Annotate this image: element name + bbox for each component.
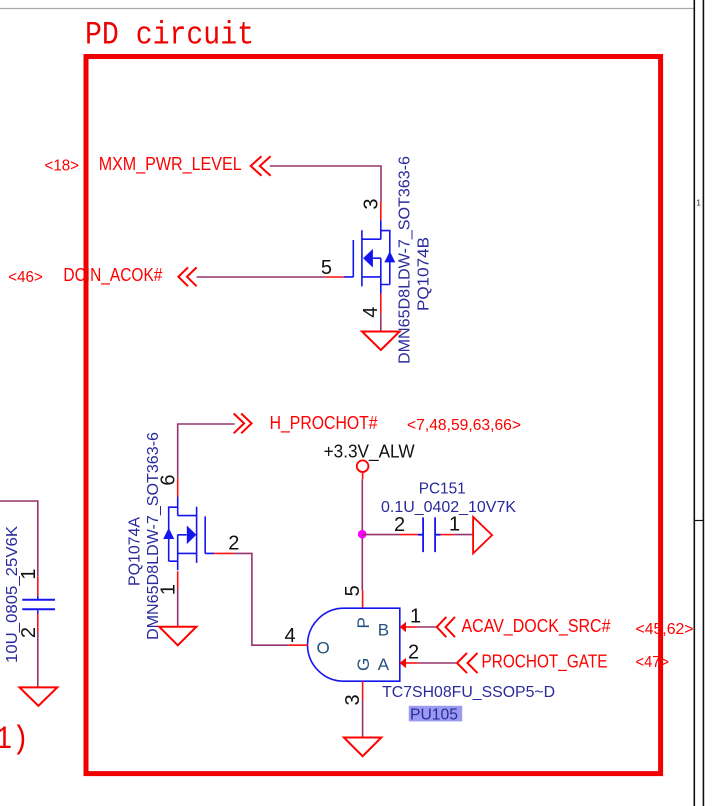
off-page connector chevron PROCHOT_GATE: [457, 653, 478, 673]
capacitor PC151 plates: [418, 517, 441, 552]
capacitor 10U pin 1 (red pin): [37, 577, 39, 596]
ground below PQ1074B: [362, 332, 400, 351]
svg-text:PROCHOT_GATE: PROCHOT_GATE: [482, 651, 608, 672]
svg-text:2: 2: [228, 533, 239, 555]
sheet top rule: [0, 8, 694, 10]
transistor PQ1074A pin 2 (red pin): [214, 552, 234, 554]
svg-text:1: 1: [449, 514, 460, 536]
svg-text:DCIN_ACOK#: DCIN_ACOK#: [63, 265, 162, 286]
transistor PQ1074B pin 5 (red pin): [326, 276, 344, 278]
wire PQ1074A drain to H_PROCHOT#: [178, 424, 235, 479]
pin 4 of PU105 (red pin): [289, 644, 308, 646]
svg-text:P: P: [354, 617, 373, 628]
wire PQ1074A source to ground: [177, 589, 179, 627]
ground below 10U capacitor: [20, 687, 58, 706]
svg-text:DMN65D8LDW-7_SOT363-6: DMN65D8LDW-7_SOT363-6: [145, 432, 162, 640]
svg-text:MXM_PWR_LEVEL: MXM_PWR_LEVEL: [99, 154, 242, 175]
svg-text:PC151: PC151: [419, 481, 466, 498]
off-page connector chevron ACAV_DOCK_SRC#: [437, 617, 455, 637]
capacitor 10U pin 2 (red pin): [37, 610, 39, 614]
AND gate PU105 body: [308, 608, 400, 681]
svg-text:A: A: [378, 655, 390, 674]
sheet border line outer: [693, 0, 695, 806]
svg-text:PQ1074A: PQ1074A: [126, 517, 143, 586]
ground below PQ1074A: [159, 627, 196, 646]
svg-text:5: 5: [321, 257, 332, 279]
svg-text:5: 5: [342, 585, 364, 596]
wire PQ1074B source to ground: [380, 313, 382, 331]
transistor PQ1074A pin 6 (red pin): [177, 479, 179, 497]
wire pin2 to PROCHOT_GATE: [418, 662, 456, 664]
svg-text:ACAV_DOCK_SRC#: ACAV_DOCK_SRC#: [462, 616, 611, 637]
wire PQ1074A gate to gate pin 4: [234, 553, 289, 645]
wire pin1 to ACAV_DOCK_SRC#: [417, 626, 436, 628]
pin 1 of PU105 (red pin): [406, 626, 417, 628]
off-page connector chevron MXM_PWR_LEVEL: [251, 156, 271, 176]
pin 2 of PU105 (red pin): [406, 662, 418, 664]
wire DCIN_ACOK# to PQ1074B gate: [197, 276, 326, 278]
wire pin 3 to ground: [362, 701, 364, 738]
transistor PQ1074B pin 4 (red pin): [380, 294, 382, 314]
power arrow symbol at PC151: [473, 517, 492, 554]
svg-text:2: 2: [18, 627, 40, 638]
svg-text:1: 1: [18, 568, 40, 579]
pin 1 arrowhead of PU105: [400, 622, 406, 632]
transistor PQ1074A pin 1 (red pin): [177, 571, 179, 588]
svg-text:PD circuit: PD circuit: [85, 17, 254, 54]
svg-text:2: 2: [408, 642, 419, 664]
refdes highlight box: [409, 706, 462, 722]
capacitor PC151 pin 1 (red pin): [441, 534, 455, 536]
sheet zone tick: [694, 520, 703, 522]
wire into left capacitor: [0, 501, 38, 577]
AND gate PU105 pin 5 (red pin): [362, 590, 364, 608]
svg-text:+3.3V_ALW: +3.3V_ALW: [324, 442, 415, 463]
transistor PQ1074B body: [344, 220, 396, 293]
off-page connector chevron DCIN_ACOK#: [178, 267, 196, 286]
svg-text:1): 1): [0, 721, 29, 758]
svg-text:<18>: <18>: [45, 158, 80, 175]
svg-text:4: 4: [285, 625, 296, 647]
sheet border line inner: [702, 0, 704, 806]
svg-text:<45,62>: <45,62>: [636, 621, 694, 638]
capacitor 10U plates: [22, 600, 55, 610]
PD circuit boundary box: [86, 57, 661, 774]
svg-text:4: 4: [360, 307, 382, 318]
svg-text:TC7SH08FU_SSOP5~D: TC7SH08FU_SSOP5~D: [382, 684, 555, 701]
svg-text:<47>: <47>: [636, 654, 670, 671]
wire MXM_PWR_LEVEL to PQ1074B drain: [270, 166, 381, 202]
svg-text:<7,48,59,63,66>: <7,48,59,63,66>: [407, 417, 521, 434]
svg-text:10U_0805_25V6K: 10U_0805_25V6K: [4, 526, 21, 663]
svg-text:1: 1: [410, 605, 421, 627]
svg-text:<46>: <46>: [8, 269, 43, 286]
svg-text:2: 2: [394, 514, 405, 536]
transistor PQ1074B pin 3 (red pin): [380, 202, 382, 220]
svg-text:3: 3: [342, 694, 364, 705]
ground below PU105: [344, 738, 381, 757]
pin 3 of PU105 (red pin): [362, 681, 364, 700]
transistor PQ1074A body: [163, 497, 214, 571]
junction node: [358, 530, 367, 539]
svg-text:H_PROCHOT#: H_PROCHOT#: [270, 413, 378, 434]
svg-text:G: G: [354, 658, 373, 671]
svg-text:B: B: [378, 621, 389, 640]
wire junction to capacitor PC151: [362, 534, 399, 536]
wire +3.3V_ALW down to junction and gate pin 5: [362, 472, 364, 479]
svg-text:O: O: [317, 638, 330, 657]
capacitor PC151 pin 2 (red pin): [400, 534, 418, 536]
svg-text:3: 3: [360, 198, 382, 209]
off-page connector chevron H_PROCHOT#: [234, 414, 252, 434]
svg-text:PQ1074B: PQ1074B: [416, 237, 433, 311]
wire capacitor 10U to ground: [37, 632, 39, 688]
svg-text:PU105: PU105: [410, 706, 458, 723]
pin 2 arrowhead of PU105: [400, 658, 406, 668]
svg-text:1: 1: [696, 198, 701, 208]
